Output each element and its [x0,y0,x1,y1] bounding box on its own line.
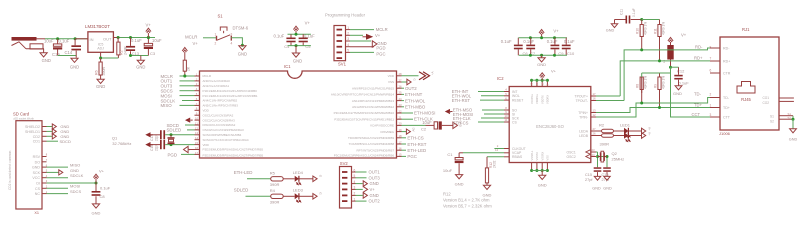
svg-text:S2: S2 [788,116,792,120]
svg-text:V+: V+ [553,29,559,34]
svg-text:uSD socket Wurth: uSD socket Wurth [13,117,34,121]
svg-text:LED3: LED3 [293,187,304,192]
svg-text:IC1: IC1 [284,64,291,69]
svg-text:V+: V+ [681,33,687,38]
svg-text:TCK/RP8/SCL1/CN22/PMD4/RB8: TCK/RP8/SCL1/CN22/PMD4/RB8 [349,142,395,146]
svg-text:AN4/C1IN-/RP2/CN6/RB2: AN4/C1IN-/RP2/CN6/RB2 [203,99,238,103]
svg-text:VSSRX: VSSRX [540,151,544,160]
svg-text:7: 7 [710,57,712,61]
inductor L1 ferrite [667,45,673,60]
ground arrow [356,183,363,185]
svg-text:RD-: RD- [695,45,703,50]
ic IC1 right pin stubs [397,75,402,77]
svg-text:OSC2: OSC2 [567,155,576,159]
svg-text:R9: R9 [653,84,657,88]
power jack X2 [12,37,37,41]
svg-text:ETH-LED: ETH-LED [234,170,253,175]
svg-text:RJ45: RJ45 [741,97,751,102]
svg-text:J1006: J1006 [719,131,731,136]
svg-text:3: 3 [231,33,233,37]
svg-text:16: 16 [398,147,402,151]
label SDCS [47,193,69,195]
svg-text:16: 16 [593,97,597,101]
svg-text:V+: V+ [99,168,105,173]
svg-text:ETH-WOL: ETH-WOL [405,98,426,103]
svg-text:V+: V+ [146,23,152,28]
svg-text:10: 10 [195,117,199,121]
svg-text:GND: GND [238,52,247,57]
ground flag [453,122,458,128]
svg-text:49R9 1%: 49R9 1% [661,76,665,89]
svg-text:V+: V+ [305,20,311,25]
svg-text:P1C1/EMUC1/AN3/C2IN+/RP1/CN5/R: P1C1/EMUC1/AN3/C2IN+/RP1/CN5/RB1 [203,94,258,98]
junction center tap [669,66,672,69]
label ETH-MBO [402,106,405,108]
svg-text:DISVREG: DISVREG [380,130,394,134]
svg-text:MCLR: MCLR [203,74,212,78]
svg-text:P3D2/EMUD3/RP5/ASDA1/CN2T/PMD7: P3D2/EMUD3/RP5/ASDA1/CN2T/PMD7/RB5 [203,153,264,157]
svg-text:RSV: RSV [33,155,41,159]
svg-text:17: 17 [398,140,402,144]
svg-text:R6: R6 [95,70,99,75]
svg-text:RD+: RD+ [723,60,730,64]
ground arrow [47,171,59,173]
wire OUT1 [356,171,367,173]
label ETH-WOL [402,100,405,102]
svg-text:SDCD: SDCD [60,139,71,144]
wire PGC [350,51,374,53]
svg-text:390R: 390R [102,67,106,76]
svg-text:CS: CS [512,120,517,124]
label SDCLK [47,177,69,179]
svg-text:11: 11 [505,118,508,122]
label MOSI [47,187,69,189]
svg-text:0.1uF: 0.1uF [59,38,70,43]
svg-text:V+: V+ [648,127,652,131]
svg-text:OUT2: OUT2 [405,86,417,91]
ground [675,86,682,90]
svg-text:14: 14 [195,136,199,140]
resistor R9 49R9 [659,73,661,77]
svg-text:27: 27 [398,78,402,82]
svg-text:TPIN-: TPIN- [579,115,588,119]
svg-text:GND: GND [293,58,302,63]
svg-text:RJ1: RJ1 [742,27,750,32]
svg-text:VDD: VDD [388,74,395,78]
svg-text:SDLED: SDLED [234,188,249,193]
svg-text:Version B1,4 = 2.7K ohm: Version B1,4 = 2.7K ohm [443,198,490,203]
ground arrow [350,40,371,42]
svg-text:P1D1/EMUD1/AN2/C2IN-/RP0/CN4/R: P1D1/EMUD1/AN2/C2IN-/RP0/CN4/RB0 [203,89,258,93]
svg-text:CD2 is card detect common: CD2 is card detect common [8,150,12,190]
svg-text:TD-: TD- [723,96,730,100]
svg-text:SV1: SV1 [338,62,347,67]
svg-text:0.1uF: 0.1uF [274,33,285,38]
svg-text:GND: GND [673,91,682,96]
svg-text:6: 6 [354,168,356,172]
svg-text:16: 16 [195,146,199,150]
svg-text:AN9/RP15/CN11/PMCS1/RB15: AN9/RP15/CN11/PMCS1/RB15 [352,86,394,90]
svg-text:SV2: SV2 [340,161,349,166]
svg-text:26: 26 [593,132,597,136]
svg-text:22: 22 [398,109,402,113]
ground [92,204,99,208]
svg-text:SDCLK: SDCLK [70,173,84,178]
svg-text:SOSCO/T1CK/C3OUT/PMA1/RA4: SOSCO/T1CK/C3OUT/PMA1/RA4 [203,138,249,142]
ground [239,46,246,50]
svg-text:0.1uF: 0.1uF [547,39,558,44]
wire [288,33,311,35]
svg-text:ETH-MBO: ETH-MBO [405,105,426,110]
svg-text:2: 2 [354,192,356,196]
svg-text:0.1uF: 0.1uF [131,38,142,43]
capacitor C16 27pf [603,167,611,169]
svg-text:0.1uF: 0.1uF [564,39,575,44]
ground flag [402,81,407,83]
svg-text:LED4: LED4 [293,170,304,175]
svg-text:V+: V+ [193,41,199,46]
svg-text:MISO: MISO [161,103,173,108]
ic IC2 right pins [591,95,596,97]
svg-text:2: 2 [215,41,217,45]
svg-text:RESET: RESET [512,99,523,103]
svg-text:GND: GND [70,168,79,173]
svg-text:VCC: VCC [32,176,40,180]
svg-text:GND: GND [455,182,464,187]
svg-text:24: 24 [592,153,596,157]
net flag [402,131,407,133]
svg-text:LEDA: LEDA [579,129,589,133]
svg-text:1: 1 [347,26,349,30]
svg-text:CS: CS [35,187,41,191]
svg-text:AN11/RP13/CN13/PMRD/RB13: AN11/RP13/CN13/PMRD/RB13 [352,99,394,103]
ic IC2 top power pins [531,80,533,86]
ground [604,176,610,180]
svg-text:C14: C14 [65,50,73,55]
svg-text:OUT: OUT [103,36,112,41]
wire TPOUT+ to RD+ [596,95,620,97]
resistor R12 RBIAS [487,156,504,158]
svg-text:VDDRX: VDDRX [546,95,550,104]
svg-text:MCLR: MCLR [376,27,388,32]
svg-text:X1: X1 [34,211,39,215]
ground [71,58,78,62]
svg-text:4: 4 [347,43,349,47]
ground ENC bottom [541,171,543,176]
svg-text:22pf: 22pf [154,145,158,151]
svg-text:Q2: Q2 [612,151,618,156]
svg-text:C5: C5 [305,44,311,49]
svg-text:3: 3 [710,113,712,117]
svg-text:C4: C4 [284,44,290,49]
svg-text:CTT: CTT [723,116,731,120]
svg-text:Programming Header: Programming Header [325,13,366,18]
svg-text:5: 5 [354,174,356,178]
svg-text:PGD: PGD [168,152,178,157]
svg-text:DV: DV [412,128,416,132]
wire MCLR [350,29,374,31]
svg-text:ETH-CS: ETH-CS [407,136,423,141]
svg-text:GND: GND [136,64,145,69]
svg-text:49R9 1%: 49R9 1% [644,76,648,89]
ground [97,79,104,83]
connector RJ1 shield pins [779,115,793,117]
svg-text:4: 4 [231,41,233,45]
svg-text:GND: GND [370,193,379,198]
svg-text:ETH-MOSI: ETH-MOSI [414,111,435,116]
svg-text:27pf: 27pf [585,178,593,182]
svg-text:AN10/CVREF/RTCC/RP14/CN12/PMWR: AN10/CVREF/RTCC/RP14/CN12/PMWR/RB14 [331,93,394,97]
resistor R1 10K [183,60,186,71]
svg-text:VDDPLL: VDDPLL [535,93,539,104]
svg-text:V+: V+ [375,33,381,38]
svg-text:C1: C1 [447,152,453,157]
svg-text:ETH-RST: ETH-RST [452,98,471,103]
svg-text:NC: NC [35,192,41,196]
svg-text:0.1uF: 0.1uF [501,39,512,44]
label ETH-RST [402,143,407,145]
svg-text:VSS: VSS [388,80,394,84]
supply V+ arrow [350,34,363,36]
svg-text:DISC0/CLKC/CN30/RA2: DISC0/CLKC/CN30/RA2 [203,123,236,127]
svg-text:V+: V+ [370,187,376,192]
connector RJ1 icon [737,82,755,94]
svg-text:49R9 1%: 49R9 1% [661,22,665,35]
svg-text:AN12/RP12/CN14/PMD0/RB12: AN12/RP12/CN14/PMD0/RB12 [352,105,394,109]
svg-text:GND: GND [96,84,105,89]
svg-text:23: 23 [592,148,596,152]
svg-text:MOSI: MOSI [70,184,80,189]
svg-text:LED1: LED1 [620,123,631,128]
wire CCT net [671,67,711,117]
svg-text:2K: 2K [186,66,190,71]
svg-text:P3D2/EMUD3/RP5/ASDA1/CN27/PMD7: P3D2/EMUD3/RP5/ASDA1/CN27/PMD7/RB5 [203,148,264,152]
svg-text:TDO/RP9/SDA1/CN21/PMD3/RB9: TDO/RP9/SDA1/CN21/PMD3/RB9 [348,136,394,140]
ground arrows group [47,126,53,128]
net flag arrow [185,118,190,123]
svg-text:S1: S1 [770,115,774,119]
svg-text:C11: C11 [620,9,624,15]
ground [790,129,797,133]
svg-text:12: 12 [195,126,199,130]
svg-text:G: G [189,119,193,121]
wire top rail [519,37,567,39]
supply flag [313,194,317,200]
svg-text:R2: R2 [599,123,605,128]
svg-text:S2: S2 [770,120,774,124]
ic IC2 left pins [504,91,509,93]
svg-text:17: 17 [593,92,597,96]
svg-text:0.1uF: 0.1uF [632,8,636,17]
connector RJ1 left pins [710,47,720,49]
svg-text:10uF: 10uF [44,38,54,43]
net arrow [445,109,450,114]
ground [594,176,600,180]
svg-text:GND: GND [592,187,601,191]
ground [611,24,617,28]
ic IC2 OSC pins with clock mark [591,151,596,153]
svg-text:13: 13 [195,131,199,135]
resistor R11 49R9 [659,20,661,25]
svg-text:TPOUT-: TPOUT- [576,99,588,103]
svg-text:17: 17 [195,151,199,155]
wire OUT3 [356,177,367,179]
svg-text:OSC1: OSC1 [567,150,576,154]
svg-text:20: 20 [398,122,402,126]
svg-text:P3C2/EMUC2/TMS/RP10/CN16/PMD2/: P3C2/EMUC2/TMS/RP10/CN16/PMD2/RB10 [334,111,395,115]
svg-text:SDCS: SDCS [70,189,81,194]
svg-text:TPOUT+: TPOUT+ [575,94,588,98]
svg-text:32.768kHz: 32.768kHz [112,141,131,146]
svg-text:SHIELD1: SHIELD1 [25,130,40,134]
svg-text:390R: 390R [270,200,280,205]
svg-text:23: 23 [398,103,402,107]
svg-text:2K32: 2K32 [493,160,497,168]
resistor R6 390R [100,58,102,62]
svg-text:RD+: RD+ [694,56,703,61]
svg-text:0.1uF: 0.1uF [679,81,690,86]
svg-text:CTR: CTR [723,72,731,76]
svg-text:RD-: RD- [723,47,730,51]
svg-text:11: 11 [195,121,198,125]
wire PGD [350,46,374,48]
svg-text:TD+: TD+ [723,106,730,110]
svg-text:VDDTX: VDDTX [540,95,544,104]
svg-text:AN1/Vref-/CN3/RA1: AN1/Vref-/CN3/RA1 [203,84,230,88]
svg-text:ETH-CS: ETH-CS [453,120,469,125]
svg-text:2: 2 [347,32,349,36]
svg-text:26: 26 [398,85,402,89]
svg-text:DTSM-6: DTSM-6 [233,25,249,30]
svg-text:R10: R10 [636,28,640,34]
svg-text:VDD: VDD [203,109,210,113]
wire bias tops [642,72,660,74]
label ETH-INT [402,93,405,95]
svg-text:25: 25 [398,91,402,95]
label SDCD [47,140,59,142]
wire OUT2 [356,200,367,202]
svg-text:GND: GND [538,183,547,188]
svg-text:DO: DO [35,160,41,164]
ground [483,185,490,189]
svg-text:AN5/C1IN+/RP3/CN7/RB3: AN5/C1IN+/RP3/CN7/RB3 [203,104,239,108]
wire [37,38,46,40]
svg-text:OSC0/CLKC/CN29/PMA6/RA3: OSC0/CLKC/CN29/PMA6/RA3 [203,128,245,132]
svg-text:CD2: CD2 [33,135,40,139]
svg-text:R8: R8 [636,84,640,88]
supply V+ flag [402,75,419,77]
svg-text:ETH-INT: ETH-INT [405,92,423,97]
wire shield to gnd [792,116,794,120]
wire [288,45,311,47]
svg-text:22pf: 22pf [154,135,158,141]
svg-text:1: 1 [710,103,712,107]
svg-text:SD Card: SD Card [13,112,30,117]
wire VCC [47,182,97,184]
svg-text:GND: GND [370,181,379,186]
label PGC [402,155,407,157]
svg-text:DI: DI [36,182,40,186]
svg-text:IN: IN [90,37,94,42]
svg-text:Version B5,7 = 2.32K ohm: Version B5,7 = 2.32K ohm [443,204,492,209]
net flag arrow [184,146,189,152]
svg-text:SDLED: SDLED [167,128,182,133]
wire ADJ [100,52,102,58]
svg-text:V+: V+ [648,132,652,136]
resistor R2 240R [117,36,120,39]
svg-text:MCLR: MCLR [185,35,197,40]
svg-text:4: 4 [354,180,356,184]
svg-text:GND: GND [606,29,615,33]
svg-text:MISO: MISO [70,163,80,168]
svg-text:10uF: 10uF [443,168,453,173]
svg-text:18: 18 [398,134,402,138]
svg-text:10uF: 10uF [422,120,432,125]
svg-text:PGC: PGC [376,52,385,57]
svg-text:V+: V+ [551,69,557,74]
svg-text:G: G [413,79,417,81]
svg-text:ETH-LED: ETH-LED [407,148,426,153]
svg-text:10uF: 10uF [152,38,162,43]
crystal Q1 symbol [170,133,173,136]
svg-text:OSC1/CLKI/CN30/RA2: OSC1/CLKI/CN30/RA2 [203,113,234,117]
svg-text:12: 12 [593,113,597,117]
svg-text:C10: C10 [567,51,575,56]
svg-text:0.1uF: 0.1uF [523,39,534,44]
svg-text:RBIAS: RBIAS [512,155,523,159]
svg-text:C3: C3 [150,51,156,56]
svg-text:GND: GND [92,210,101,215]
svg-text:R5: R5 [270,171,276,176]
svg-text:1: 1 [354,197,356,201]
connector RJ1 right pins [779,97,794,99]
svg-text:R11: R11 [653,28,657,34]
svg-text:IC2: IC2 [497,76,504,81]
svg-text:27: 27 [593,127,597,131]
capacitor C15 27pf [594,167,602,169]
label ETH-MOSI [402,112,414,114]
label ETH-CLK [402,118,414,120]
svg-text:5: 5 [347,49,349,53]
svg-text:15: 15 [195,141,199,145]
svg-text:0.1uF: 0.1uF [100,185,111,190]
svg-text:GND: GND [603,187,612,191]
svg-text:OUT3: OUT3 [369,175,381,180]
supply flag [642,133,646,139]
svg-text:ADJ: ADJ [97,46,104,50]
svg-text:Q1: Q1 [112,136,118,141]
svg-text:ENC28J60-SO: ENC28J60-SO [536,124,564,129]
svg-text:P3D2/EMUD2/T5CK/RP9/CN15/PMD1/: P3D2/EMUD2/T5CK/RP9/CN15/PMD1/RB11 [334,117,394,121]
svg-text:VSSTX: VSSTX [535,152,539,161]
ground [541,55,543,57]
svg-text:VSS: VSS [546,155,550,160]
svg-text:ETH-RST: ETH-RST [407,142,426,147]
resistor R10 49R9 [640,18,643,21]
supply arrow [356,188,363,190]
svg-text:GND: GND [70,65,79,70]
wire [203,37,217,39]
wire [231,38,242,46]
led LED2 [624,132,628,138]
svg-text:RP7/INT0/CN23/PMD5/RB7: RP7/INT0/CN23/PMD5/RB7 [356,148,394,152]
svg-text:GND: GND [537,62,546,67]
svg-text:21: 21 [398,116,402,120]
label OUT2 [402,87,405,89]
ground [456,175,463,179]
svg-text:VSSPLL: VSSPLL [530,150,534,160]
wire bottom rail [519,54,567,56]
